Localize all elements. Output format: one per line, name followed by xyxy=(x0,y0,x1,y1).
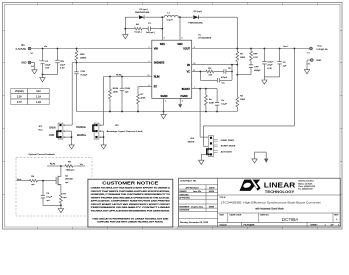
svg-text:1µF: 1µF xyxy=(283,65,287,67)
wire SW2 pin drop xyxy=(179,17,181,40)
svg-text:Average Input Current Limit: Average Input Current Limit xyxy=(107,130,144,133)
svg-text:13K: 13K xyxy=(208,75,212,77)
wire D2 to Vout rail xyxy=(199,16,238,18)
svg-text:Jane Wu: Jane Wu xyxy=(193,191,202,193)
svg-text:3.3V@1.2A: 3.3V@1.2A xyxy=(316,48,328,51)
svg-text:SHEET: SHEET xyxy=(310,224,318,226)
ground tie symbol pair xyxy=(255,151,267,153)
svg-text:APPROVALS: APPROVALS xyxy=(185,186,199,189)
size/cage/dwg row xyxy=(218,212,341,214)
svg-text:BURST MODE: BURST MODE xyxy=(221,146,236,148)
svg-text:RLIM: RLIM xyxy=(116,74,121,76)
snubber row wire xyxy=(125,28,134,30)
svg-text:2N7002: 2N7002 xyxy=(65,179,73,181)
svg-text:2.2K: 2.2K xyxy=(253,57,258,59)
ground at JP2 xyxy=(103,142,105,145)
svg-text:1MEG: 1MEG xyxy=(80,58,86,60)
svg-text:1.2A: 1.2A xyxy=(36,101,41,104)
wire JP2 pin1 to RLIM net xyxy=(99,124,104,126)
svg-text:2: 2 xyxy=(148,47,149,49)
capacitor C1 xyxy=(142,28,148,30)
wire BURST to JP4 xyxy=(199,89,201,137)
op-amp U1 LTC3442EDE converter IC xyxy=(152,40,192,98)
svg-text:SHDN: SHDN xyxy=(49,128,56,130)
svg-text:5: 5 xyxy=(164,38,165,40)
svg-text:47µF: 47µF xyxy=(45,64,51,66)
svg-text:TECHNOLOGY APPLICATIONS ENGINE: TECHNOLOGY APPLICATIONS ENGINEERING FOR … xyxy=(91,209,171,212)
svg-text:SHDN/SS: SHDN/SS xyxy=(154,62,165,65)
svg-text:10: 10 xyxy=(147,75,149,77)
svg-text:RC: RC xyxy=(208,68,212,70)
wire JP2 pins 2-3 to ground xyxy=(99,130,104,132)
svg-text:CIRCUIT THAT MEETS CUSTOMER-SU: CIRCUIT THAT MEETS CUSTOMER-SUPPLIED SPE… xyxy=(91,190,170,193)
svg-text:CLIM: CLIM xyxy=(125,88,130,90)
wire VC pin xyxy=(192,71,206,73)
svg-text:6: 6 xyxy=(182,38,183,40)
svg-text:2.7V: 2.7V xyxy=(17,101,22,104)
svg-text:CUSTOMER NOTICE: CUSTOMER NOTICE xyxy=(102,181,158,186)
svg-text:Optional Current Feedback: Optional Current Feedback xyxy=(29,153,56,156)
terminal E3 GND out xyxy=(311,59,314,62)
wire CC branch xyxy=(199,72,201,81)
capacitor CIN xyxy=(57,49,59,61)
svg-text:DRAWN: DRAWN xyxy=(179,190,187,193)
svg-text:2.7V-5.5V: 2.7V-5.5V xyxy=(16,48,27,51)
node Vin stub xyxy=(77,165,85,167)
wire RT pin xyxy=(138,86,152,88)
wire JP1 pins 2-3 to ground xyxy=(63,130,72,132)
svg-text:VERIFY PROPER AND RELIABLE OPE: VERIFY PROPER AND RELIABLE OPERATION IN … xyxy=(91,196,171,199)
resistor R4 xyxy=(134,27,142,30)
wire Q1 gate xyxy=(44,180,57,182)
svg-text:PERFORMANCE OR RELIABILITY. C: PERFORMANCE OR RELIABILITY. CONTACT LINE… xyxy=(91,206,171,209)
svg-text:9: 9 xyxy=(148,85,149,87)
scale/filename/sheet row xyxy=(179,225,341,227)
svg-text:RT: RT xyxy=(154,86,158,89)
capacitor C3 xyxy=(279,49,281,62)
ground at E4 xyxy=(31,62,35,64)
svg-text:SUPPLIED FOR USE WITH LINEAR T: SUPPLIED FOR USE WITH LINEAR TECHNOLOGY … xyxy=(97,221,163,224)
svg-text:PMEG2010EA: PMEG2010EA xyxy=(188,22,203,25)
svg-text:2.5V: 2.5V xyxy=(17,95,22,98)
resistor RSS xyxy=(75,49,78,63)
wire Vout to JP4 mode select xyxy=(293,49,295,126)
svg-text:RLIM: RLIM xyxy=(113,88,118,90)
wire comp to FB xyxy=(231,65,233,81)
svg-text:0.1µF: 0.1µF xyxy=(46,197,52,199)
svg-text:CSS: CSS xyxy=(81,71,86,73)
wire FB node vertical xyxy=(236,65,238,93)
capacitor C6 xyxy=(42,181,44,195)
wire feedback ground xyxy=(43,204,61,206)
svg-text:CHECKED: CHECKED xyxy=(179,194,189,196)
resistor R3 xyxy=(236,93,239,112)
title block outline xyxy=(179,178,341,227)
svg-text:1µF: 1µF xyxy=(125,92,129,94)
svg-text:CAGE CODE: CAGE CODE xyxy=(229,214,242,217)
resistor R5 xyxy=(61,165,77,168)
svg-text:TITLE: TITLE xyxy=(219,197,225,199)
node BURST wire xyxy=(192,88,217,90)
svg-text:1: 1 xyxy=(148,61,149,63)
svg-text:0 (opt.): 0 (opt.) xyxy=(135,31,142,34)
jumper JP1 RUN/SHDN xyxy=(58,123,63,139)
svg-text:1.1A: 1.1A xyxy=(36,95,41,98)
svg-text:CC: CC xyxy=(222,83,226,85)
resistor RLIM xyxy=(109,77,112,112)
svg-text:9/8/06: 9/8/06 xyxy=(209,206,214,208)
transistor Q1 xyxy=(60,166,62,177)
svg-text:RUN: RUN xyxy=(49,135,54,137)
ground at E3 xyxy=(307,59,311,61)
svg-text:ENGINEER: ENGINEER xyxy=(179,206,190,208)
resistor R7 xyxy=(60,191,63,206)
svg-text:ENABLE: ENABLE xyxy=(77,134,87,137)
wire SW2 to D2 xyxy=(180,16,193,18)
capacitor C2 xyxy=(42,49,44,61)
svg-text:opt.: opt. xyxy=(65,181,69,184)
svg-text:D2 (opt.): D2 (opt.) xyxy=(194,10,203,13)
ground at input caps xyxy=(42,75,44,78)
svg-text:VOUT: VOUT xyxy=(183,48,190,51)
diode D1 xyxy=(139,15,144,19)
svg-text:SCALE: SCALE xyxy=(219,223,227,226)
ground at output caps xyxy=(263,77,265,80)
svg-text:SIZE: SIZE xyxy=(219,215,224,217)
svg-text:HOWEVER, IT REMAINS THE CUSTOM: HOWEVER, IT REMAINS THE CUSTOMER'S RESPO… xyxy=(91,193,171,196)
ground for D1/R4/C1 snubber xyxy=(124,29,126,32)
optional current feedback dashed box xyxy=(16,158,92,217)
svg-text:DESIGNER: DESIGNER xyxy=(179,210,190,212)
table Vin(min)/Iout xyxy=(11,89,49,105)
svg-text:4: 4 xyxy=(182,100,183,102)
resistor RC xyxy=(206,70,214,73)
svg-text:GND: GND xyxy=(316,60,321,62)
svg-text:6.3V: 6.3V xyxy=(60,68,65,70)
wire input cap ground bus xyxy=(43,74,58,76)
svg-text:LTC3442EDE, High Efficiency Sy: LTC3442EDE, High Efficiency Synchronous … xyxy=(221,201,321,205)
resistor R6 xyxy=(29,179,37,182)
wire SW1 pin drop xyxy=(161,17,163,40)
svg-text:9/8/06: 9/8/06 xyxy=(209,191,214,193)
wire SGND pin drop xyxy=(163,98,165,111)
svg-text:CIN: CIN xyxy=(60,61,64,63)
node Vout rail xyxy=(192,48,310,50)
node SW1 top wire xyxy=(125,16,138,18)
inductor L1 xyxy=(162,15,180,17)
svg-text:680pF: 680pF xyxy=(254,70,261,72)
svg-text:TECHNOLOGY: TECHNOLOGY xyxy=(265,190,296,194)
svg-text:FIXED FREQ.: FIXED FREQ. xyxy=(221,140,235,142)
svg-text:220K: 220K xyxy=(209,103,215,105)
wire C1 to SW1 xyxy=(157,28,163,30)
svg-text:1nF(opt.): 1nF(opt.) xyxy=(146,31,155,34)
svg-text:0.1µF: 0.1µF xyxy=(221,104,227,106)
capacitor CP xyxy=(214,71,224,73)
title section xyxy=(218,194,341,196)
resistor R2 xyxy=(236,49,239,65)
svg-text:Vin(min): Vin(min) xyxy=(15,90,24,93)
svg-text:APPLICATION. COMPONENT SUBSTIT: APPLICATION. COMPONENT SUBSTITUTION AND … xyxy=(91,200,171,203)
svg-text:AUTOCON: AUTOCON xyxy=(221,150,232,153)
resistor Ra xyxy=(204,89,207,112)
svg-text:3.3µH: 3.3µH xyxy=(167,19,173,21)
svg-text:CFF: CFF xyxy=(254,67,259,69)
svg-text:LINEAR TECHNOLOGY HAS MADE A B: LINEAR TECHNOLOGY HAS MADE A BEST EFFORT… xyxy=(91,187,171,190)
capacitor CSS xyxy=(76,63,78,72)
capacitor CFF xyxy=(250,64,252,65)
approvals block xyxy=(179,184,218,186)
jumper JP2 ENABLE/DISABLE xyxy=(94,123,99,139)
svg-text:RLIM: RLIM xyxy=(154,76,160,79)
resistor RFF xyxy=(250,49,253,64)
terminal E2 Vout xyxy=(310,47,313,50)
svg-text:Vout: Vout xyxy=(283,45,288,48)
svg-text:190(opt.): 190(opt.) xyxy=(66,169,75,172)
svg-text:with Automatic Burst Mode: with Automatic Burst Mode xyxy=(255,208,284,211)
ground at JP4 xyxy=(201,153,208,155)
svg-text:DC799A: DC799A xyxy=(282,217,298,222)
svg-text:47µF: 47µF xyxy=(267,65,273,67)
wire snubber left vertical xyxy=(124,17,126,29)
svg-text:Vout: Vout xyxy=(38,128,43,131)
capacitor CLIM xyxy=(121,77,123,89)
svg-text:A: A xyxy=(336,217,338,221)
svg-text:200K: 200K xyxy=(240,99,246,101)
svg-text:10V: 10V xyxy=(45,68,49,70)
ground at JP1 xyxy=(71,142,73,145)
svg-text:FB: FB xyxy=(187,64,190,67)
svg-text:opt.: opt. xyxy=(46,199,50,202)
svg-text:MODE: MODE xyxy=(188,142,195,144)
wire CFF to FB node xyxy=(237,74,251,76)
svg-text:Vout: Vout xyxy=(17,178,22,181)
diode D2 xyxy=(193,15,198,19)
customer notice box xyxy=(88,179,173,227)
svg-text:CONTRACT NO.: CONTRACT NO. xyxy=(180,180,197,183)
ground at PGND pin xyxy=(179,98,181,104)
svg-text:Vout: Vout xyxy=(317,44,322,47)
svg-text:1630 McCarthy Blvd.: 1630 McCarthy Blvd. xyxy=(298,180,314,183)
svg-text:SW2: SW2 xyxy=(177,43,183,46)
node Vout gate stub xyxy=(17,180,30,182)
svg-text:0.01µF: 0.01µF xyxy=(81,74,89,76)
svg-text:CIRCUIT BOARD LAYOUT MAY SIGNI: CIRCUIT BOARD LAYOUT MAY SIGNIFICANTLY A… xyxy=(91,203,171,206)
svg-text:432K: 432K xyxy=(140,98,146,100)
node SHDN/SS wire xyxy=(72,62,152,64)
wire SHDN/SS down to JP1 xyxy=(71,63,73,126)
ground at SGND xyxy=(163,112,165,115)
ground at feedback network xyxy=(60,205,62,208)
capacitor CC xyxy=(216,79,218,81)
svg-text:DATE: DATE xyxy=(209,186,215,189)
svg-text:FILENAME: FILENAME xyxy=(244,223,255,226)
svg-text:D1 (opt.): D1 (opt.) xyxy=(139,8,148,11)
svg-text:opt.: opt. xyxy=(63,196,67,199)
node ground bus xyxy=(77,111,238,113)
svg-text:BURST: BURST xyxy=(182,88,191,91)
svg-text:THIS CIRCUIT IS PROPRIETARY TO: THIS CIRCUIT IS PROPRIETARY TO LINEAR TE… xyxy=(92,217,169,220)
terminal E4 GND input xyxy=(28,61,31,64)
svg-text:RFF: RFF xyxy=(253,54,258,56)
svg-text:LINEAR: LINEAR xyxy=(264,180,296,189)
svg-text:APPROVED: APPROVED xyxy=(179,197,190,200)
resistor RT xyxy=(137,87,140,112)
Linear Technology logo xyxy=(240,180,261,191)
svg-text:Milpitas, CA 95035: Milpitas, CA 95035 xyxy=(298,182,312,185)
svg-text:DWG NO.: DWG NO. xyxy=(260,215,269,217)
node RLIM wire xyxy=(104,76,152,78)
svg-text:Iout: Iout xyxy=(37,90,41,93)
svg-text:opt.: opt. xyxy=(31,183,35,186)
node RLIM stub wire xyxy=(47,165,61,167)
svg-text:DISABLE: DISABLE xyxy=(76,126,86,129)
svg-text:3: 3 xyxy=(165,100,166,102)
svg-text:10µF: 10µF xyxy=(60,64,66,66)
svg-text:REV: REV xyxy=(334,215,339,217)
svg-text:COUT: COUT xyxy=(267,61,274,63)
svg-text:Fax: (408)434-0507: Fax: (408)434-0507 xyxy=(298,189,313,191)
svg-text:DongYan Zhou: DongYan Zhou xyxy=(191,206,203,208)
svg-text:SGND: SGND xyxy=(161,95,168,98)
svg-text:GND: GND xyxy=(21,62,27,65)
terminal E1 Vin input xyxy=(28,47,31,50)
svg-text:470pF: 470pF xyxy=(221,77,228,79)
capacitor COUT xyxy=(263,49,265,62)
svg-text:PMEG2010EA: PMEG2010EA xyxy=(135,11,150,14)
svg-text:PGND: PGND xyxy=(181,95,188,98)
svg-text:SW1: SW1 xyxy=(160,43,166,46)
svg-text:Monday, November 06, 2006: Monday, November 06, 2006 xyxy=(180,221,209,224)
svg-text:6.3V: 6.3V xyxy=(267,68,272,70)
svg-text:CP: CP xyxy=(228,68,232,70)
svg-text:VIN: VIN xyxy=(154,48,158,51)
svg-text:RSS: RSS xyxy=(80,54,85,56)
svg-text:RLIM: RLIM xyxy=(50,164,55,166)
svg-text:140K: 140K xyxy=(113,91,119,93)
jumper JP4 MODE xyxy=(208,136,213,157)
wire output cap ground xyxy=(264,76,279,78)
svg-text:LTC3442EDE: LTC3442EDE xyxy=(198,38,212,40)
node FB wire xyxy=(192,64,238,66)
capacitor Ca xyxy=(216,89,218,102)
svg-text:340K: 340K xyxy=(240,57,246,59)
svg-text:VC: VC xyxy=(187,71,191,74)
wire JP1 pin1 to SHDN/SS xyxy=(63,124,72,126)
node Vin rail wire xyxy=(31,48,152,50)
